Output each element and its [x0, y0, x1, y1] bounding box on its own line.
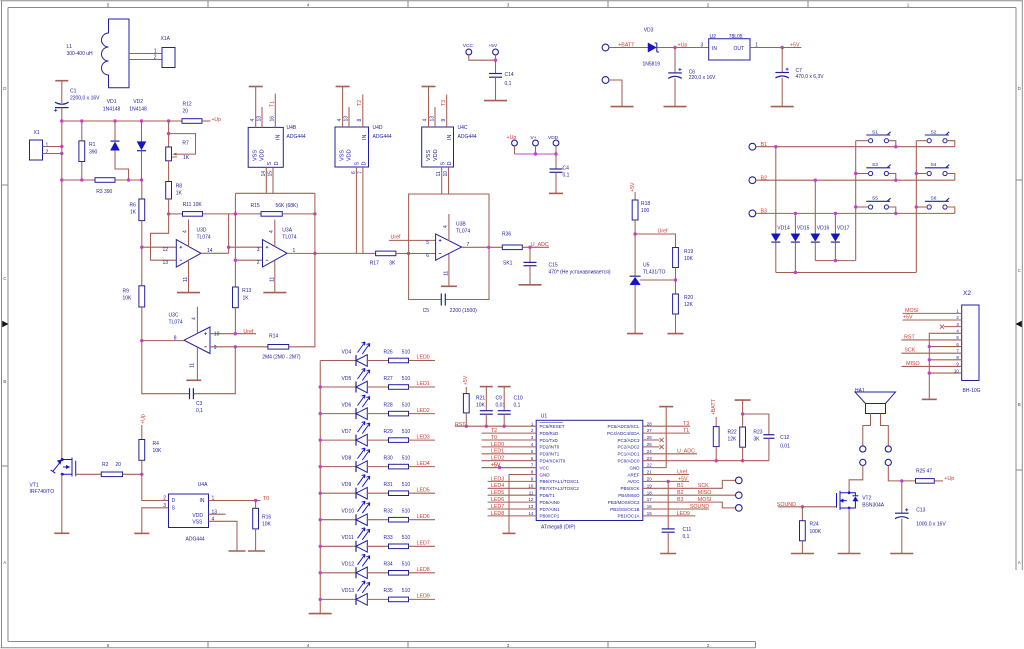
- wire U1 pin20 AVCC: [643, 480, 689, 482]
- svg-text:VT2: VT2: [862, 495, 871, 501]
- svg-text:PB0/ICP1: PB0/ICP1: [540, 514, 560, 519]
- junction VD1/rail: [113, 119, 116, 122]
- wire U4B pin13: [261, 107, 263, 127]
- terminal MISO: [736, 492, 743, 499]
- svg-text:VD6: VD6: [342, 402, 352, 408]
- svg-text:LED8: LED8: [417, 567, 430, 573]
- svg-text:1N4148: 1N4148: [103, 107, 121, 113]
- svg-text:U_ADC: U_ADC: [531, 242, 549, 248]
- junction T0 node: [254, 499, 257, 502]
- wire U2 out to +5V: [750, 47, 801, 49]
- svg-text:LED9: LED9: [417, 594, 430, 600]
- resistor R20: [673, 294, 679, 314]
- svg-text:R20: R20: [684, 295, 693, 301]
- resistor R11: [183, 212, 203, 217]
- wire node to R11: [169, 213, 183, 215]
- junction +5V pin7: [498, 466, 501, 469]
- wire U4A pin13 stub: [209, 513, 226, 515]
- svg-text:Uref: Uref: [243, 329, 254, 335]
- svg-text:+BATT: +BATT: [711, 398, 717, 415]
- svg-text:390: 390: [89, 149, 98, 155]
- svg-text:16: 16: [647, 504, 652, 509]
- svg-text:6: 6: [351, 171, 357, 174]
- svg-text:28: 28: [647, 421, 652, 426]
- connector X1A: [162, 48, 175, 68]
- svg-text:12K: 12K: [684, 302, 694, 308]
- svg-text:+5V: +5V: [790, 43, 800, 49]
- analog switch U4D: [335, 127, 369, 167]
- svg-text:S1: S1: [872, 129, 878, 135]
- svg-text:PB1/OC1A: PB1/OC1A: [617, 514, 639, 519]
- wire R29 to LED3: [409, 439, 436, 441]
- svg-text:1N4148: 1N4148: [129, 107, 147, 113]
- svg-text:S5: S5: [872, 196, 878, 202]
- svg-text:PB4/MISO: PB4/MISO: [618, 493, 640, 498]
- wire R18 bottom: [634, 220, 636, 234]
- wire X2 pin1 MOSI: [903, 312, 962, 314]
- svg-text:SCK: SCK: [904, 348, 915, 354]
- resistor R34: [389, 571, 409, 576]
- svg-text:RST: RST: [904, 334, 915, 340]
- wire X2 pin7 SCK: [901, 352, 961, 354]
- LED VD9: [320, 492, 356, 494]
- svg-text:VD3: VD3: [644, 28, 654, 34]
- svg-text:IN: IN: [447, 134, 453, 140]
- svg-text:0,1: 0,1: [563, 173, 570, 179]
- svg-text:3K: 3K: [389, 260, 396, 266]
- svg-text:B3: B3: [677, 497, 684, 503]
- svg-text:ADG444: ADG444: [458, 134, 477, 140]
- wire S6 right wrap: [947, 207, 955, 213]
- resistor R30: [389, 464, 409, 469]
- wire U1 pin15 LED9: [643, 515, 696, 517]
- junction R22 bottom: [715, 459, 718, 462]
- svg-text:13: 13: [212, 509, 218, 515]
- wire U3D pin12 input: [142, 246, 177, 248]
- wire VD2 top: [141, 121, 143, 142]
- svg-text:R33: R33: [384, 535, 393, 541]
- svg-text:11: 11: [529, 490, 534, 495]
- junction TL431 ref: [674, 278, 677, 281]
- wire R1 bottom: [81, 162, 83, 181]
- analog switch U4C: [422, 127, 454, 167]
- op-amp U3B: [436, 234, 462, 260]
- svg-text:R4: R4: [153, 441, 160, 447]
- svg-text:ADG444: ADG444: [373, 134, 392, 140]
- svg-text:VT1: VT1: [30, 482, 39, 488]
- svg-text:U3D: U3D: [197, 227, 207, 233]
- resistor R35: [389, 597, 409, 602]
- diode VD16: [814, 180, 816, 234]
- junction VD2/rail: [140, 119, 143, 122]
- wire R31 to LED5: [409, 492, 436, 494]
- svg-text:3: 3: [507, 3, 510, 8]
- svg-text:Uref: Uref: [391, 234, 402, 240]
- wire U1 pin3: [482, 439, 537, 441]
- svg-text:PB5/SCK: PB5/SCK: [620, 486, 639, 491]
- resistor R9: [139, 286, 145, 307]
- wire R35 to LED9: [409, 598, 436, 600]
- wire S1/S3/S5 left column: [856, 140, 869, 142]
- svg-text:LED5: LED5: [491, 490, 504, 496]
- junction V+ tie: [534, 152, 537, 155]
- svg-text:Uref: Uref: [677, 469, 688, 475]
- svg-text:+5V: +5V: [463, 375, 469, 385]
- svg-text:VDD: VDD: [346, 149, 352, 161]
- resistor R3: [95, 178, 115, 183]
- svg-text:LED4: LED4: [491, 483, 504, 489]
- capacitor C4: [550, 169, 563, 172]
- svg-text:S4: S4: [931, 162, 937, 168]
- junction VD17 to B3: [834, 212, 837, 215]
- power bar above C1: [55, 80, 68, 82]
- junction C5 left: [407, 252, 410, 255]
- svg-text:1: 1: [212, 496, 215, 502]
- svg-text:GND: GND: [630, 465, 641, 470]
- terminal B1: [749, 143, 756, 150]
- power bar pin22: [659, 406, 673, 408]
- power bar R23: [735, 399, 751, 401]
- wire U1 pin21 Uref: [643, 474, 689, 476]
- svg-text:T1: T1: [270, 101, 276, 107]
- svg-text:R25 47: R25 47: [916, 469, 932, 475]
- junction rail/left bus: [60, 178, 63, 181]
- svg-text:VD17: VD17: [837, 226, 850, 232]
- svg-text:S6: S6: [931, 196, 937, 202]
- wire X1-1: [43, 146, 62, 148]
- svg-text:LED9: LED9: [677, 511, 690, 517]
- capacitor C15: [529, 247, 531, 262]
- svg-text:1K: 1K: [176, 191, 183, 197]
- junction R23 bottom: [741, 459, 744, 462]
- svg-text:U4A: U4A: [198, 482, 208, 488]
- microcontroller U1 ATmega8: [536, 420, 643, 520]
- svg-text:PC4/ADC4/SDA: PC4/ADC4/SDA: [607, 431, 640, 436]
- wire U1 pin25 nc: [643, 446, 660, 448]
- svg-text:LED2: LED2: [491, 456, 504, 462]
- svg-text:LED6: LED6: [491, 497, 504, 503]
- no-connect X pin3: [940, 325, 944, 329]
- junction VD1 bottom: [127, 178, 130, 181]
- svg-text:20: 20: [183, 109, 189, 115]
- LED VD11: [320, 545, 356, 547]
- svg-text:10K: 10K: [153, 448, 163, 454]
- svg-text:R2: R2: [102, 462, 109, 468]
- svg-text:4: 4: [423, 119, 429, 122]
- wire HA1 right lead: [881, 414, 889, 446]
- svg-text:S: S: [355, 162, 361, 166]
- svg-text:8: 8: [174, 335, 177, 341]
- ground U3C: [186, 379, 201, 381]
- diode VD17: [834, 213, 836, 233]
- wire U4C pin10: [448, 167, 450, 194]
- svg-text:VSS: VSS: [253, 150, 259, 161]
- svg-text:12: 12: [162, 247, 168, 253]
- wire U1 pin16 SOUND: [643, 508, 709, 510]
- junction C13 tap: [900, 479, 903, 482]
- diode VD15: [794, 213, 796, 233]
- svg-text:PD0/RxD: PD0/RxD: [540, 431, 560, 436]
- ground R16: [248, 550, 265, 552]
- svg-text:TL074: TL074: [282, 235, 296, 241]
- wire R14 to U3A output: [289, 253, 315, 346]
- wire R15 right: [282, 213, 315, 215]
- wire Uref to U3B pin5: [389, 239, 436, 241]
- wire +5V to R21: [465, 387, 467, 394]
- wire U4B pin16: [274, 94, 276, 128]
- svg-text:U3B: U3B: [456, 222, 466, 228]
- svg-text:7: 7: [357, 171, 363, 174]
- svg-text:D: D: [274, 162, 280, 166]
- svg-text:PD1/TxD: PD1/TxD: [540, 438, 559, 443]
- op-amp U3D: [176, 240, 201, 267]
- capacitor C11: [667, 481, 669, 529]
- svg-text:R19: R19: [684, 249, 693, 255]
- terminal VCC: [466, 49, 472, 55]
- resistor R23: [740, 427, 746, 447]
- svg-text:R15: R15: [251, 203, 260, 209]
- junction R15 out: [313, 212, 316, 215]
- wire VD2 bottom: [141, 151, 143, 180]
- wire L1 pin1 to X1A-1: [129, 53, 162, 55]
- wire X2 pin9 MISO: [901, 365, 961, 367]
- junction Uref node: [633, 232, 636, 235]
- svg-text:U_ADC: U_ADC: [677, 449, 695, 455]
- svg-text:22: 22: [647, 463, 652, 468]
- LED VD4: [320, 360, 356, 362]
- resistor R36: [502, 245, 522, 250]
- svg-text:VCC: VCC: [540, 465, 550, 470]
- svg-text:+Up: +Up: [212, 117, 222, 123]
- wire C13 to ground: [901, 519, 903, 554]
- capacitor C12: [743, 414, 769, 435]
- wire VD3 to U2: [657, 47, 709, 49]
- svg-text:+5V: +5V: [903, 314, 913, 320]
- ground C11: [660, 553, 676, 555]
- wire VD9 to R31: [367, 492, 389, 494]
- svg-text:C7: C7: [796, 68, 803, 74]
- svg-text:GND: GND: [540, 472, 551, 477]
- wire R2 to node: [123, 473, 142, 475]
- svg-text:PC6/RESET: PC6/RESET: [540, 424, 565, 429]
- junction VD16 to B2: [814, 179, 817, 182]
- wire U4C pin11: [441, 167, 443, 194]
- wire R28 to LED2: [409, 413, 436, 415]
- resistor R31: [389, 491, 409, 496]
- svg-text:+Up: +Up: [944, 476, 954, 482]
- svg-text:LED5: LED5: [417, 487, 430, 493]
- wire R22 bottom: [715, 447, 717, 461]
- wire U3C pin10: [210, 333, 256, 335]
- svg-text:+5V: +5V: [489, 43, 498, 49]
- svg-text:300-400 uH: 300-400 uH: [67, 51, 94, 57]
- resistor R26: [389, 358, 409, 363]
- wire +Up stub: [514, 146, 516, 154]
- svg-text:1N5819: 1N5819: [643, 62, 661, 68]
- wire U1 pin28 T3: [643, 425, 690, 427]
- junction R24: [801, 505, 804, 508]
- wire VD13 to R35: [367, 598, 389, 600]
- wire R36 to U_ADC: [522, 246, 549, 248]
- wire U1 pin11: [488, 494, 537, 496]
- svg-text:4: 4: [307, 3, 310, 8]
- ground C6: [664, 106, 687, 108]
- svg-text:TL074: TL074: [456, 229, 470, 235]
- junction VD15 to B3: [794, 212, 797, 215]
- svg-text:VD8: VD8: [342, 455, 352, 461]
- svg-text:C3: C3: [196, 401, 203, 407]
- svg-text:OUT: OUT: [734, 46, 745, 52]
- ground X2: [922, 398, 937, 400]
- wire R12 to +Up: [202, 120, 211, 122]
- transistor VT1 IRF740: [51, 458, 76, 477]
- wire SOUND to VT2 gate: [778, 506, 837, 508]
- wire speaker to R25: [888, 466, 915, 481]
- wire S2/S4/S6 left column: [916, 140, 927, 142]
- wire U3D pin11 stub: [188, 261, 190, 293]
- wire R20 to ground: [675, 314, 677, 334]
- svg-text:C9: C9: [496, 395, 503, 401]
- junction C5 right: [487, 246, 490, 249]
- svg-text:2200,0 x 16V: 2200,0 x 16V: [70, 95, 100, 101]
- junction U3D out to U3A in: [227, 246, 230, 249]
- junction C11: [667, 480, 670, 483]
- wire Uref to R19: [635, 234, 675, 248]
- wire lower rail left: [62, 179, 95, 181]
- junction R21: [465, 425, 468, 428]
- svg-text:PD3/INT1: PD3/INT1: [540, 452, 560, 457]
- svg-text:C11: C11: [683, 527, 692, 533]
- svg-text:D: D: [1018, 86, 1021, 91]
- svg-text:R29: R29: [384, 429, 393, 435]
- svg-text:510: 510: [402, 402, 411, 408]
- wire X2 pin10: [929, 372, 961, 374]
- junction S3 to B2: [894, 179, 897, 182]
- wire R30 to LED4: [409, 466, 436, 468]
- ground bar C9: [480, 386, 493, 388]
- svg-text:LED1: LED1: [417, 381, 430, 387]
- svg-text:PC1/ADC1: PC1/ADC1: [617, 452, 640, 457]
- svg-text:ADG444: ADG444: [186, 536, 205, 542]
- svg-text:2200 (1500): 2200 (1500): [450, 308, 477, 314]
- terminal VDD: [553, 140, 559, 146]
- wire VD16/VD17 cathode rail: [815, 260, 855, 262]
- terminal B3: [749, 210, 756, 217]
- wire R7 to R8: [168, 161, 170, 182]
- svg-text:11: 11: [269, 277, 275, 282]
- junction U3A output: [313, 252, 316, 255]
- svg-text:11: 11: [436, 171, 442, 176]
- svg-text:10K: 10K: [684, 256, 694, 262]
- wire U3A pin2 input: [235, 259, 262, 261]
- svg-text:10: 10: [443, 171, 449, 177]
- wire R24 to ground: [801, 541, 803, 554]
- svg-text:6: 6: [426, 253, 429, 259]
- svg-text:R12: R12: [183, 101, 192, 107]
- svg-text:LED6: LED6: [417, 514, 430, 520]
- power bar U4D: [336, 86, 350, 88]
- wire X2 pin5 RST: [901, 339, 961, 341]
- resistor R2: [101, 472, 122, 477]
- junction U3A pin2: [234, 259, 237, 262]
- svg-text:PB3/MOSI/OC2: PB3/MOSI/OC2: [608, 500, 640, 505]
- wire U3D feedback vertical: [228, 214, 230, 253]
- wire S1 right stub: [889, 141, 896, 147]
- svg-text:R23: R23: [753, 430, 762, 436]
- svg-text:+5V: +5V: [630, 182, 636, 192]
- svg-text:VD13: VD13: [342, 588, 355, 594]
- LED VD13: [320, 598, 356, 600]
- svg-text:PB2/SS/OC1B: PB2/SS/OC1B: [610, 507, 639, 512]
- wire U1 pin5: [482, 453, 537, 455]
- svg-text:X2: X2: [963, 290, 971, 297]
- terminal B2: [749, 177, 756, 184]
- svg-text:510: 510: [402, 376, 411, 382]
- ground LED bus: [309, 613, 332, 615]
- connector X2 BH-10G: [962, 305, 979, 381]
- junction S5 left: [854, 205, 857, 208]
- wire U4D pin8: [362, 95, 364, 128]
- svg-text:9: 9: [214, 345, 217, 351]
- terminal speaker mate 2: [885, 459, 891, 465]
- wire X2 pin2 +5V: [903, 319, 962, 321]
- svg-text:VD12: VD12: [342, 562, 355, 568]
- svg-text:0,1: 0,1: [196, 408, 203, 414]
- LED VD12: [320, 572, 356, 574]
- connector X1: [30, 140, 43, 160]
- svg-text:10: 10: [954, 368, 959, 373]
- op-amp U3A: [263, 240, 288, 267]
- wire row B2: [756, 179, 955, 181]
- wire R13 to Uref node: [234, 308, 236, 334]
- terminal battery minus: [602, 77, 609, 84]
- svg-text:PC2/ADC2: PC2/ADC2: [617, 445, 640, 450]
- wire rail to R7: [168, 121, 170, 147]
- svg-text:B1: B1: [677, 483, 684, 489]
- wire X2 pin6: [929, 346, 961, 348]
- wire C1 top: [61, 82, 63, 104]
- wire U1 pin10: [488, 487, 537, 489]
- svg-text:MISO: MISO: [906, 361, 920, 367]
- svg-text:VD4: VD4: [342, 349, 352, 355]
- svg-text:X1: X1: [34, 130, 40, 136]
- resistor R1: [79, 141, 85, 162]
- wire X2 pin8: [929, 359, 961, 361]
- svg-text:VD16: VD16: [817, 226, 830, 232]
- svg-text:ATmega8 (DIP): ATmega8 (DIP): [541, 524, 576, 530]
- wire pin9 to R14: [235, 346, 268, 348]
- junction S5 to B3: [894, 212, 897, 215]
- wire U4C pin9: [446, 95, 448, 128]
- svg-text:10: 10: [214, 331, 220, 337]
- svg-text:220,0 x 16V: 220,0 x 16V: [689, 75, 716, 81]
- svg-text:MISO: MISO: [698, 490, 712, 496]
- svg-text:C13: C13: [916, 507, 925, 513]
- svg-text:VD1: VD1: [107, 99, 117, 105]
- svg-text:27: 27: [647, 428, 652, 433]
- svg-text:13: 13: [430, 116, 436, 122]
- svg-text:3: 3: [507, 643, 510, 648]
- svg-text:R21: R21: [476, 395, 485, 401]
- svg-text:4: 4: [212, 517, 215, 523]
- svg-text:T1: T1: [683, 428, 689, 434]
- wire U3B output pin7: [462, 246, 503, 248]
- resistor R25: [916, 479, 935, 484]
- svg-text:3: 3: [701, 43, 704, 49]
- resistor R6: [139, 199, 145, 221]
- ground U3B: [441, 285, 457, 287]
- wire VD8 to R30: [367, 466, 389, 468]
